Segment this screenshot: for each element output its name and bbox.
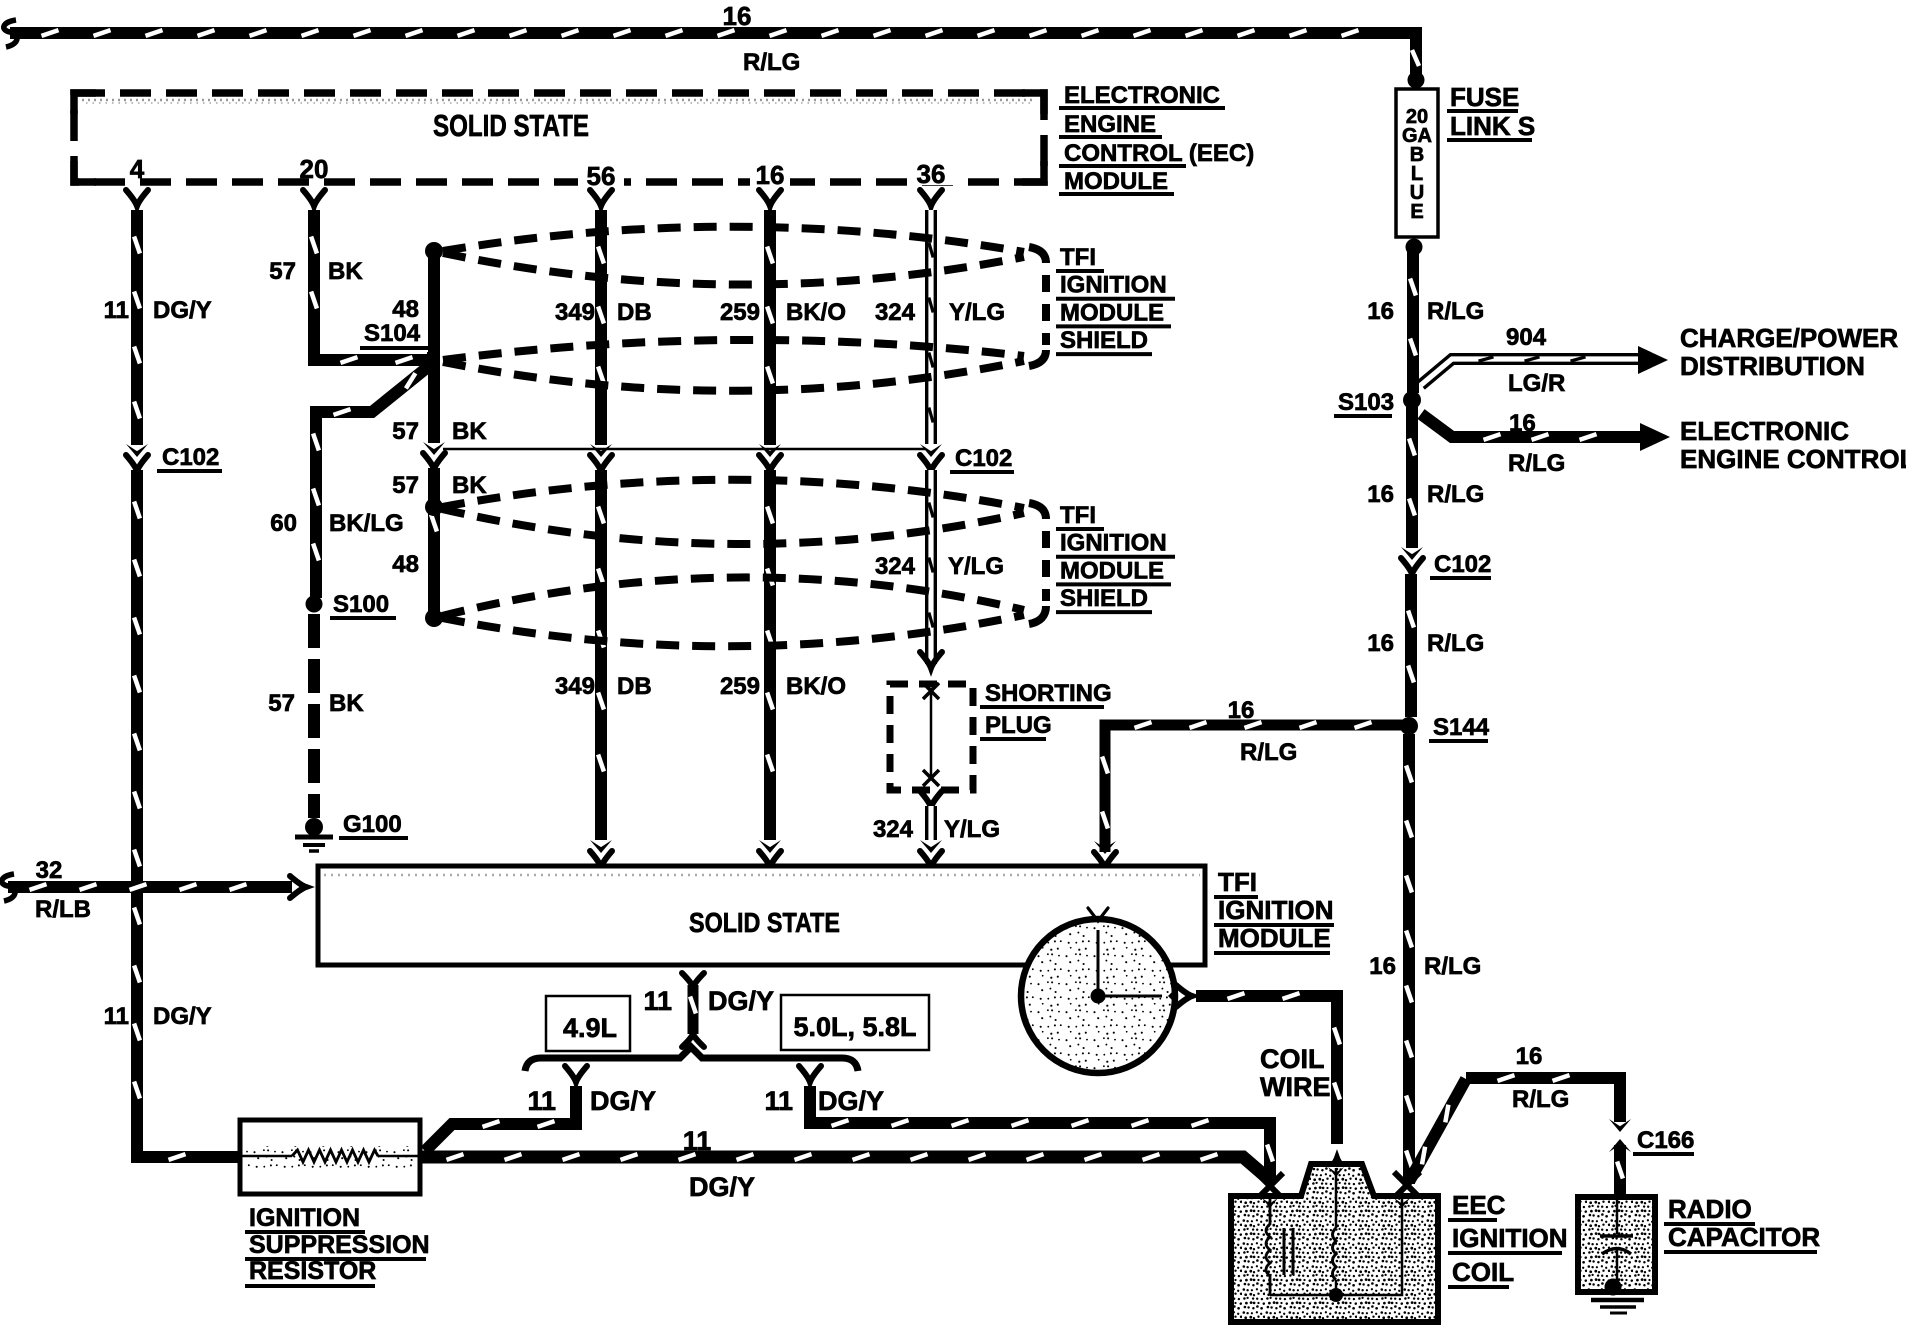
svg-text:4.9L: 4.9L: [563, 1013, 617, 1043]
svg-text:SOLID STATE: SOLID STATE: [689, 907, 840, 938]
svg-text:ENGINE CONTROL: ENGINE CONTROL: [1680, 444, 1906, 474]
svg-text:ELECTRONIC: ELECTRONIC: [1064, 82, 1220, 109]
svg-text:11: 11: [643, 986, 672, 1016]
svg-text:DG/Y: DG/Y: [818, 1086, 884, 1116]
svg-text:TFI: TFI: [1060, 244, 1096, 271]
svg-text:RADIO: RADIO: [1668, 1194, 1752, 1224]
svg-text:ENGINE: ENGINE: [1064, 111, 1156, 138]
svg-text:R/LG: R/LG: [1512, 1086, 1569, 1113]
svg-text:36: 36: [917, 159, 946, 189]
svg-text:324: 324: [873, 816, 914, 843]
svg-text:11: 11: [104, 297, 129, 324]
svg-text:R/LG: R/LG: [1240, 739, 1297, 766]
svg-text:DG/Y: DG/Y: [153, 297, 212, 324]
svg-text:BK: BK: [328, 258, 363, 285]
svg-text:324: 324: [875, 299, 916, 326]
svg-text:DG/Y: DG/Y: [708, 986, 774, 1016]
svg-text:C102: C102: [955, 445, 1012, 472]
svg-text:16: 16: [1509, 410, 1536, 437]
svg-text:C166: C166: [1637, 1127, 1694, 1154]
svg-text:CAPACITOR: CAPACITOR: [1668, 1222, 1820, 1252]
svg-text:16: 16: [1367, 298, 1394, 325]
svg-text:BK/LG: BK/LG: [329, 510, 404, 537]
svg-text:BK/O: BK/O: [786, 299, 846, 326]
svg-text:C102: C102: [162, 444, 219, 471]
svg-text:16: 16: [1367, 481, 1394, 508]
svg-text:C102: C102: [1434, 551, 1491, 578]
svg-text:S103: S103: [1338, 389, 1394, 416]
svg-text:R/LG: R/LG: [743, 49, 800, 76]
svg-text:349: 349: [555, 299, 595, 326]
svg-text:SOLID STATE: SOLID STATE: [433, 108, 589, 143]
svg-text:57: 57: [392, 472, 419, 499]
svg-text:16: 16: [1516, 1043, 1543, 1070]
svg-text:IGNITION: IGNITION: [249, 1204, 360, 1232]
svg-text:20: 20: [300, 154, 329, 184]
svg-text:R/LG: R/LG: [1427, 630, 1484, 657]
svg-text:LG/R: LG/R: [1508, 370, 1565, 397]
svg-text:CHARGE/POWER: CHARGE/POWER: [1680, 323, 1898, 353]
svg-text:IGNITION: IGNITION: [1060, 530, 1167, 557]
svg-text:TFI: TFI: [1218, 867, 1257, 897]
svg-text:Y/LG: Y/LG: [949, 299, 1005, 326]
svg-text:R/LG: R/LG: [1427, 481, 1484, 508]
svg-text:16: 16: [1367, 630, 1394, 657]
svg-text:259: 259: [720, 299, 760, 326]
svg-text:Y/LG: Y/LG: [948, 553, 1004, 580]
svg-text:BK: BK: [452, 472, 487, 499]
svg-text:ELECTRONIC: ELECTRONIC: [1680, 416, 1849, 446]
svg-text:PLUG: PLUG: [985, 712, 1052, 739]
svg-text:11: 11: [683, 1126, 712, 1156]
svg-text:IGNITION: IGNITION: [1060, 272, 1167, 299]
svg-text:DG/Y: DG/Y: [689, 1172, 755, 1202]
svg-text:RESISTOR: RESISTOR: [249, 1257, 376, 1285]
svg-text:5.0L, 5.8L: 5.0L, 5.8L: [793, 1012, 916, 1042]
svg-text:FUSE: FUSE: [1450, 82, 1519, 112]
svg-text:DB: DB: [617, 299, 652, 326]
svg-text:DG/Y: DG/Y: [153, 1003, 212, 1030]
svg-text:BK/O: BK/O: [786, 673, 846, 700]
svg-text:EEC: EEC: [1452, 1190, 1506, 1220]
svg-text:Y/LG: Y/LG: [944, 816, 1000, 843]
svg-text:16: 16: [1369, 953, 1396, 980]
svg-text:16: 16: [723, 1, 752, 31]
svg-text:MODULE: MODULE: [1064, 168, 1168, 195]
svg-text:11: 11: [764, 1086, 793, 1116]
svg-text:60: 60: [270, 510, 297, 537]
svg-text:G100: G100: [343, 811, 402, 838]
svg-text:MODULE: MODULE: [1060, 299, 1164, 326]
svg-text:11: 11: [104, 1003, 129, 1030]
svg-text:904: 904: [1506, 324, 1547, 351]
svg-text:COIL: COIL: [1260, 1044, 1325, 1074]
svg-text:SHIELD: SHIELD: [1060, 327, 1148, 354]
svg-text:E: E: [1410, 201, 1423, 223]
svg-text:57: 57: [269, 258, 296, 285]
svg-text:DISTRIBUTION: DISTRIBUTION: [1680, 351, 1865, 381]
svg-text:16: 16: [756, 160, 785, 190]
svg-text:DG/Y: DG/Y: [590, 1086, 656, 1116]
svg-text:11: 11: [527, 1086, 556, 1116]
svg-text:48: 48: [392, 551, 419, 578]
svg-text:TFI: TFI: [1060, 502, 1096, 529]
svg-text:16: 16: [1228, 697, 1255, 724]
svg-text:MODULE: MODULE: [1060, 557, 1164, 584]
svg-text:S104: S104: [364, 320, 421, 347]
svg-text:DB: DB: [617, 673, 652, 700]
svg-text:SHIELD: SHIELD: [1060, 585, 1148, 612]
svg-text:LINK S: LINK S: [1450, 111, 1535, 141]
svg-text:CONTROL (EEC): CONTROL (EEC): [1064, 140, 1254, 167]
svg-text:349: 349: [555, 673, 595, 700]
svg-text:R/LG: R/LG: [1427, 298, 1484, 325]
svg-text:IGNITION: IGNITION: [1218, 895, 1334, 925]
svg-text:4: 4: [130, 154, 145, 184]
svg-text:57: 57: [268, 690, 295, 717]
svg-text:259: 259: [720, 673, 760, 700]
svg-text:BK: BK: [329, 690, 364, 717]
svg-text:R/LG: R/LG: [1508, 450, 1565, 477]
svg-text:WIRE: WIRE: [1260, 1072, 1331, 1102]
svg-text:COIL: COIL: [1452, 1257, 1514, 1287]
svg-text:32: 32: [36, 857, 63, 884]
svg-text:IGNITION: IGNITION: [1452, 1223, 1568, 1253]
svg-text:56: 56: [587, 161, 616, 191]
svg-text:S100: S100: [333, 591, 389, 618]
svg-text:SHORTING: SHORTING: [985, 680, 1112, 707]
svg-text:BK: BK: [452, 418, 487, 445]
svg-text:48: 48: [392, 296, 419, 323]
svg-text:57: 57: [392, 418, 419, 445]
svg-text:S144: S144: [1433, 714, 1490, 741]
svg-text:324: 324: [875, 553, 916, 580]
svg-text:R/LG: R/LG: [1424, 953, 1481, 980]
svg-text:R/LB: R/LB: [35, 896, 91, 923]
svg-text:SUPPRESSION: SUPPRESSION: [249, 1231, 430, 1259]
svg-text:MODULE: MODULE: [1218, 923, 1331, 953]
